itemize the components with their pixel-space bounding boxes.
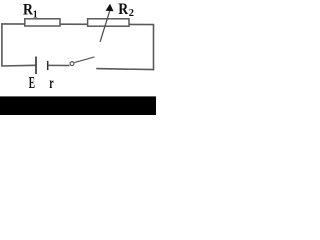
R2 wiper arrowhead bbox=[106, 4, 114, 12]
label R1 bbox=[23, 1, 33, 18]
wire battery to switch bbox=[48, 64, 69, 66]
svg-text:R: R bbox=[118, 1, 128, 18]
label R2 bbox=[118, 1, 128, 18]
battery plate short bbox=[47, 61, 49, 70]
wire bottom left bbox=[1, 64, 35, 67]
svg-text:E: E bbox=[29, 73, 35, 92]
svg-text:2: 2 bbox=[129, 8, 134, 19]
black censor bar bottom bbox=[0, 96, 156, 115]
svg-text:R: R bbox=[23, 1, 33, 18]
label E bbox=[29, 73, 35, 92]
switch lever bbox=[74, 57, 94, 63]
battery plate long (E) bbox=[35, 57, 37, 75]
resistor R1 bbox=[25, 19, 60, 26]
label r bbox=[49, 73, 53, 91]
wire top horizontal bbox=[1, 23, 154, 26]
wire left vertical bbox=[1, 23, 3, 66]
R2 wiper arrow shaft bbox=[100, 9, 110, 42]
svg-text:1: 1 bbox=[33, 9, 38, 21]
svg-text:r: r bbox=[49, 73, 53, 91]
switch pivot circle bbox=[70, 62, 74, 66]
wire bottom right bbox=[96, 69, 154, 70]
resistor R2 (variable) bbox=[88, 19, 129, 26]
wire right vertical bbox=[153, 24, 155, 70]
